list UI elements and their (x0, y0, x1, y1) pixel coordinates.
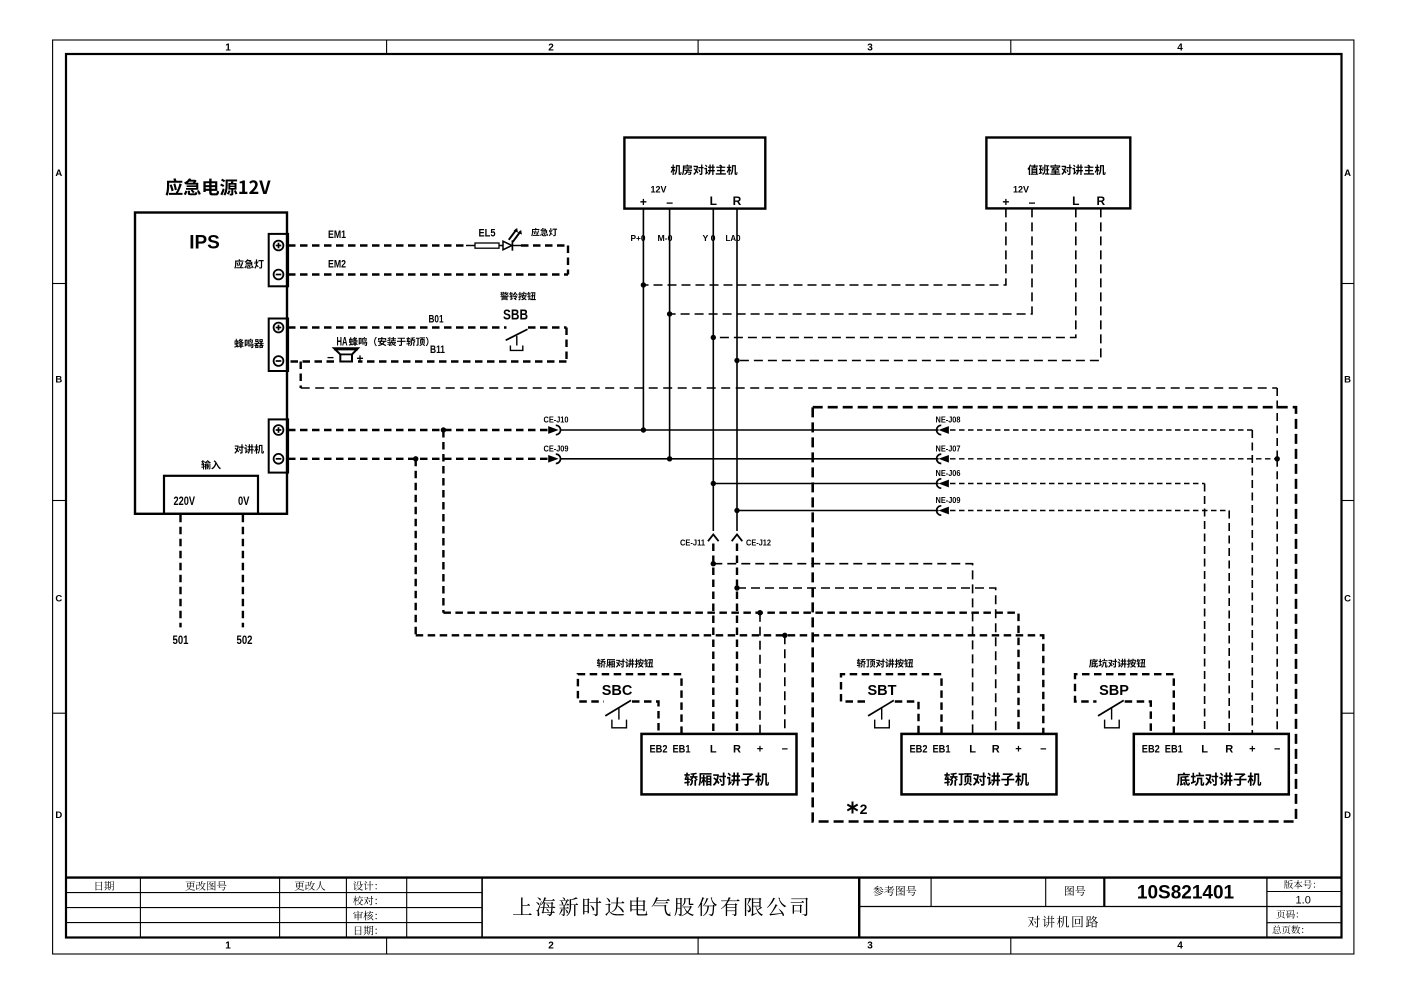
wire CE-J10 dashed from IPS ⊕ (288, 429, 549, 431)
junction car + column (757, 610, 762, 615)
connector CE-J11 arrow up (708, 535, 719, 542)
label 轿顶对讲子机 (944, 773, 1029, 786)
svg-text:P+0: P+0 (631, 233, 646, 243)
wire B11 lower rail to speaker + (358, 360, 567, 362)
wire - vertical from CE-J09 junction (415, 459, 417, 636)
svg-text:−: − (666, 196, 673, 210)
svg-text:L: L (1201, 744, 1208, 756)
svg-text:B: B (55, 375, 62, 386)
connector NE-J06 arrow (941, 481, 948, 486)
wire EL5 to LED (499, 245, 503, 247)
svg-text:4: 4 (1177, 941, 1183, 952)
duty room intercom master box 值班室对讲主机 (986, 138, 1130, 209)
svg-text:CE-J09: CE-J09 (544, 443, 569, 453)
svg-text:SBP: SBP (1099, 683, 1129, 699)
wire NE-J07 dashed to junction (950, 458, 1277, 460)
wire SBB right edge down (565, 328, 567, 362)
svg-text:EB1: EB1 (933, 744, 951, 756)
intercom slave box 轿顶对讲子机 (902, 734, 1057, 795)
svg-text:−: − (1028, 196, 1035, 210)
svg-text:B: B (1344, 375, 1351, 386)
svg-text:−: − (1274, 744, 1280, 756)
svg-text:D: D (55, 810, 62, 821)
svg-text:L: L (1072, 194, 1079, 208)
svg-text:CE-J12: CE-J12 (746, 538, 771, 548)
junction - column CE-J09 (667, 456, 672, 461)
frame column dividers bottom (386, 938, 388, 955)
svg-text:L: L (710, 744, 717, 756)
connector CE-J09 arrow (549, 456, 556, 461)
svg-text:1: 1 (225, 43, 231, 54)
wire L column (machine room) (712, 209, 714, 531)
terminal ⊖ intercom pin (274, 454, 284, 464)
frame row dividers left (53, 283, 66, 285)
svg-text:220V: 220V (174, 494, 196, 508)
terminal block 应急灯 of IPS (269, 234, 288, 286)
svg-text:0V: 0V (238, 494, 250, 508)
svg-text:A: A (1344, 168, 1351, 179)
svg-text:SBC: SBC (602, 683, 633, 699)
wire R column (machine room) (736, 209, 738, 531)
connector CE-J12 arrow up (732, 535, 743, 542)
junction R column NE-J09 (734, 508, 739, 513)
svg-text:1.0: 1.0 (1296, 895, 1311, 907)
label 轿顶对讲按钮 (857, 659, 913, 668)
svg-text:1: 1 (225, 941, 231, 952)
label 值班室对讲主机 (1028, 164, 1106, 175)
connector CE-J10 arrow (549, 427, 556, 432)
wire + rail to car-top slave (443, 613, 1018, 734)
connector NE-J09 arrow (941, 508, 948, 513)
svg-text:3: 3 (867, 941, 873, 952)
svg-text:M-0: M-0 (658, 233, 673, 243)
label 对讲机 (IPS) (234, 444, 264, 453)
wire NE-J09 dashed to pit R (950, 510, 1229, 512)
svg-text:B11: B11 (430, 344, 445, 356)
intercom slave box 轿厢对讲子机 (642, 734, 797, 795)
svg-text:EM1: EM1 (328, 229, 346, 241)
junction R rail (734, 585, 739, 590)
svg-text:+: + (356, 352, 363, 366)
svg-text:2: 2 (548, 43, 554, 54)
wire EM1 continuation to right corner (512, 245, 521, 247)
wire duty - hook (670, 208, 1032, 314)
wire CE-J09 dashed from IPS ⊖ (288, 458, 549, 460)
title block header 日期 (96, 881, 115, 891)
label 蜂鸣器 (IPS) (234, 339, 264, 348)
title block header 更改人 (295, 881, 326, 891)
svg-text:C: C (55, 594, 62, 605)
wire SBB to right corner (528, 326, 567, 328)
terminal ⊖ EM2 pin (274, 270, 284, 280)
junction NE-J07 long rail (1275, 456, 1280, 461)
machine room intercom master box 机房对讲主机 (624, 138, 765, 209)
wire - column (machine room) (669, 209, 671, 459)
svg-text:NE-J09: NE-J09 (936, 495, 961, 505)
svg-text:2: 2 (860, 801, 868, 817)
terminal ⊖ buzzer-return pin (274, 356, 284, 366)
buzzer HA speaker symbol (334, 348, 358, 361)
push button SBC circuit wires (578, 674, 682, 734)
wire long rail to pit slave - (301, 387, 1277, 389)
push button SBB actuator (516, 336, 518, 346)
group box *2 dashed outline (813, 407, 1296, 821)
terminal ⊕ intercom pin (274, 425, 284, 435)
svg-text:CE-J11: CE-J11 (680, 538, 705, 548)
push button SBP circuit wires (1075, 674, 1174, 734)
junction duty + on + column (641, 282, 646, 287)
wire - rail to car-top slave (416, 635, 1044, 734)
push button SBC actuator (618, 708, 620, 720)
title block header 更改图号 (185, 881, 226, 891)
svg-text:502: 502 (237, 633, 253, 647)
wire R solid to NE-J09 arrow (737, 510, 939, 512)
junction duty - on - column (667, 311, 672, 316)
svg-text:EB1: EB1 (1165, 744, 1183, 756)
svg-text:501: 501 (173, 633, 189, 647)
svg-text:SBT: SBT (868, 683, 897, 699)
wire EM2 from IPS ⊖ (288, 273, 568, 275)
resistor EL5 (475, 243, 499, 248)
svg-text:EB1: EB1 (673, 744, 691, 756)
title block revision table lines (67, 892, 482, 894)
terminal block 对讲机 of IPS (269, 419, 288, 472)
terminal ⊕ B01 pin (274, 323, 284, 333)
title block outline (66, 876, 1342, 878)
wire R column below CE-J12 (736, 544, 738, 734)
drawing title 对讲机回路 (1028, 916, 1098, 928)
junction L rail (711, 561, 716, 566)
svg-text:D: D (1344, 810, 1351, 821)
label 参考图号 (873, 886, 916, 896)
wire SBP to EB2 (1125, 702, 1151, 734)
junction + column CE-J10 (641, 427, 646, 432)
svg-text:2: 2 (548, 941, 554, 952)
IPS input terminal box 220V 0V (164, 476, 258, 514)
terminal block 蜂鸣器 of IPS (269, 319, 288, 372)
label 页码: (1277, 910, 1298, 919)
label 轿厢对讲按钮 (597, 659, 653, 668)
wire duty + hook (643, 208, 1006, 285)
label 输入 (201, 460, 221, 470)
wire car - column down (784, 635, 786, 734)
svg-text:B01: B01 (429, 314, 444, 326)
junction L column NE-J06 (711, 481, 716, 486)
svg-text:+: + (640, 195, 647, 209)
junction buzzer return branch (300, 362, 302, 389)
wire CE-J09 solid to NE-J07 arrow (561, 458, 939, 460)
push button SBT actuator (881, 708, 883, 720)
power supply IPS box (135, 213, 287, 514)
svg-text:10S821401: 10S821401 (1137, 883, 1235, 904)
wire + vertical from CE-J10 junction (442, 430, 444, 613)
label 轿厢对讲子机 (684, 773, 769, 786)
svg-text:4: 4 (1177, 43, 1183, 54)
svg-text:IPS: IPS (189, 233, 220, 254)
svg-text:EB2: EB2 (650, 744, 668, 756)
svg-text:NE-J08: NE-J08 (936, 415, 961, 425)
svg-text:NE-J06: NE-J06 (936, 468, 961, 478)
junction duty R on R column (734, 358, 739, 363)
svg-text:LA0: LA0 (726, 233, 741, 243)
label 应急灯 (IPS) (234, 259, 263, 269)
wire SBT to EB2 (895, 702, 919, 734)
label 底坑对讲子机 (1177, 772, 1262, 786)
push button SBP blade (1098, 700, 1124, 716)
wire EM1/EM2 right edge down (567, 246, 569, 275)
wire duty R hook (737, 208, 1101, 360)
label 应急电源12V (166, 178, 271, 196)
wire duty L hook (713, 208, 1076, 337)
terminal ⊕ EM1 pin (274, 241, 284, 251)
push button SBP actuator (1111, 708, 1113, 720)
label 警铃按钮 (500, 292, 536, 301)
svg-text:R: R (992, 744, 1000, 756)
svg-text:−: − (782, 744, 788, 756)
svg-text:C: C (1344, 594, 1351, 605)
svg-text:A: A (55, 168, 62, 179)
svg-text:CE-J10: CE-J10 (544, 415, 569, 425)
push button SBT blade (868, 700, 894, 716)
svg-text:3: 3 (867, 43, 873, 54)
label 总页数: (1272, 925, 1303, 934)
svg-text:+: + (1249, 744, 1255, 756)
wire R rail to car-top slave (737, 588, 996, 734)
svg-text:+: + (1015, 744, 1021, 756)
svg-text:EB2: EB2 (910, 744, 928, 756)
label 底坑对讲按钮 (1089, 659, 1146, 668)
label 图号 (1065, 886, 1085, 896)
frame row dividers right (1342, 283, 1354, 285)
svg-text:R: R (733, 744, 741, 756)
label *2 (847, 802, 857, 814)
wire EM1 from IPS ⊕ to EL5 (288, 244, 466, 246)
svg-text:+: + (1002, 195, 1009, 209)
svg-text:L: L (710, 194, 717, 208)
connector NE-J08 arrow (941, 427, 948, 432)
svg-text:−: − (1040, 744, 1046, 756)
wire L column below CE-J11 (712, 544, 714, 734)
svg-text:HA: HA (337, 335, 348, 349)
wire car + column down (759, 613, 761, 734)
title block labels 设计 校对 审核 日期 (353, 881, 377, 891)
svg-text:EB2: EB2 (1142, 744, 1160, 756)
junction CE-J10 branch (441, 427, 446, 432)
svg-text:L: L (969, 744, 976, 756)
frame column dividers top (386, 40, 388, 54)
svg-text:+: + (757, 744, 763, 756)
intercom slave box 底坑对讲子机 (1134, 734, 1289, 795)
svg-text:EL5: EL5 (479, 228, 496, 240)
title block right section lines (858, 878, 860, 938)
junction CE-J09 branch (413, 456, 418, 461)
svg-text:EM2: EM2 (328, 259, 346, 271)
label 机房对讲主机 (671, 165, 738, 176)
wire 502 from 0V (242, 515, 244, 628)
wire long rail down to pit - (1276, 388, 1278, 459)
wire 501 from 220V (179, 515, 181, 628)
wire B01 from IPS ⊕ to SBB (288, 326, 507, 328)
push button SBT circuit wires (841, 674, 942, 734)
svg-text:R: R (1096, 194, 1105, 208)
wire speaker - to IPS ⊖ (288, 360, 334, 362)
label 版本号: (1284, 880, 1315, 889)
wire NE-J08 dashed to pit + (950, 429, 1252, 431)
wire + column (machine room) (642, 209, 644, 430)
label 应急灯 (lamp) (531, 228, 557, 237)
connector NE-J07 arrow (941, 456, 948, 461)
LED D1 emergency light (503, 241, 512, 250)
push button SBB blade (506, 329, 528, 340)
svg-text:R: R (1225, 744, 1233, 756)
svg-text:NE-J07: NE-J07 (936, 443, 961, 453)
company name 上海新时达电气股份有限公司 (513, 897, 808, 916)
svg-text:SBB: SBB (503, 308, 528, 324)
svg-text:R: R (733, 194, 742, 208)
svg-text:12V: 12V (1013, 185, 1029, 195)
push button SBC blade (605, 700, 631, 716)
wire CE-J10 solid to NE-J08 arrow (561, 429, 939, 431)
svg-text:Y 0: Y 0 (703, 233, 716, 243)
wire L solid to NE-J06 arrow (713, 483, 938, 485)
wire SBC to EB2 (632, 702, 659, 734)
junction car - column (782, 633, 787, 638)
junction duty L on L column (711, 335, 716, 340)
svg-text:12V: 12V (650, 185, 666, 195)
wire NE-J06 dashed to pit L (950, 483, 1205, 485)
wire L rail to car-top slave (713, 564, 972, 734)
